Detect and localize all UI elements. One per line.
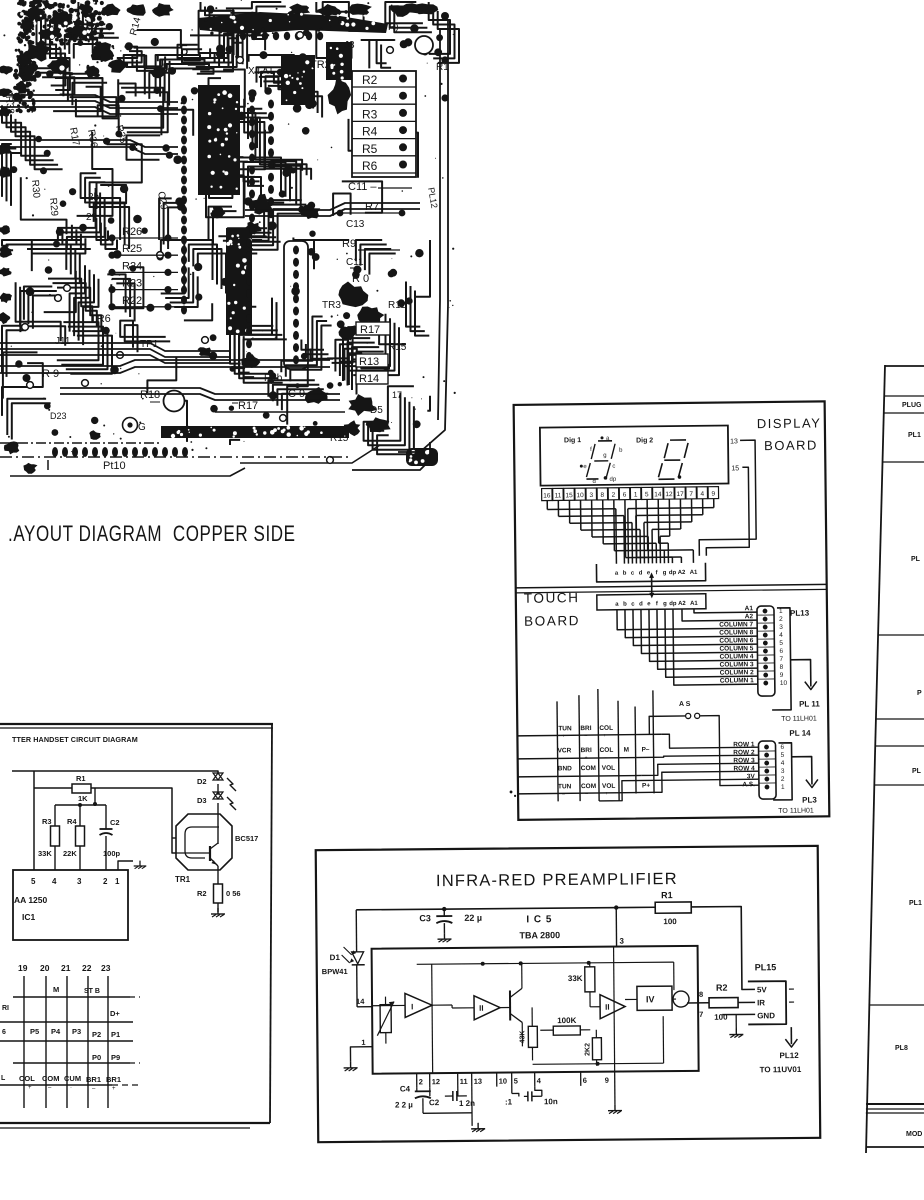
display/touch board outer frame (514, 401, 830, 820)
svg-text:COLUMN 4: COLUMN 4 (720, 653, 754, 660)
board divider line (516, 584, 827, 588)
svg-text:1: 1 (361, 1038, 365, 1047)
svg-text:TO 11UV01: TO 11UV01 (760, 1065, 802, 1074)
svg-text:TR6: TR6 (90, 313, 111, 325)
svg-text:8: 8 (699, 990, 703, 999)
svg-text:D3: D3 (197, 796, 207, 805)
svg-text:22 µ: 22 µ (464, 913, 482, 923)
IC1 box (13, 870, 128, 940)
svg-text:2: 2 (779, 616, 783, 623)
svg-text:3: 3 (77, 877, 82, 886)
capacitor C1 (511, 1087, 513, 1094)
svg-text:COL: COL (599, 725, 613, 732)
svg-text:1: 1 (634, 491, 638, 498)
svg-text:L: L (1, 1075, 6, 1082)
svg-text:R36: R36 (85, 129, 99, 149)
pad row under dark streak (240, 32, 246, 40)
svg-text:C4: C4 (400, 1084, 411, 1093)
svg-text:+: + (603, 733, 606, 739)
pin3/pin9 vertical crossing box (614, 947, 615, 1072)
svg-text:TUN: TUN (558, 783, 572, 790)
svg-text:1: 1 (115, 877, 120, 886)
svg-text:5: 5 (781, 752, 785, 759)
svg-text:d: d (639, 601, 643, 607)
svg-text:I C 5: I C 5 (526, 914, 552, 925)
svg-text:PL1: PL1 (908, 432, 921, 439)
svg-text:+: + (28, 1085, 32, 1091)
svg-text:COM: COM (581, 765, 596, 772)
caption LAYOUT DIAGRAM COPPER SIDE (8, 522, 296, 548)
svg-text:R 0: R 0 (352, 273, 369, 285)
svg-text:R5: R5 (362, 142, 378, 156)
svg-text:COM: COM (581, 783, 596, 790)
mid blobs (D3/C2 area) (251, 194, 273, 215)
PCB copper traces upper-left zone (2, 105, 49, 155)
svg-text:TR1: TR1 (175, 875, 191, 884)
svg-text:ROW 1: ROW 1 (733, 741, 755, 748)
long horizontal trace bundles (lower half) (0, 343, 230, 351)
svg-text:13: 13 (730, 438, 738, 445)
TR1 inner shield loop (185, 827, 219, 858)
scattered via pads (64, 285, 71, 292)
svg-text:P0: P0 (92, 1053, 101, 1062)
svg-text:C3: C3 (419, 913, 431, 923)
svg-text:R24: R24 (122, 260, 142, 272)
svg-text:14: 14 (654, 491, 662, 498)
svg-text:PL12: PL12 (426, 187, 440, 209)
svg-text:22: 22 (82, 963, 92, 973)
svg-text:P–: P– (642, 746, 650, 753)
svg-text:P+: P+ (642, 782, 650, 789)
table row line y=1005 (869, 1004, 924, 1006)
TR1 base wire (172, 837, 176, 839)
svg-text:R29: R29 (47, 197, 60, 217)
resistor R1 (34, 787, 72, 789)
handset box right border (270, 724, 272, 1123)
svg-text:COLUMN 6: COLUMN 6 (719, 637, 753, 644)
white label box R14 (356, 371, 388, 384)
svg-text:IR: IR (757, 998, 765, 1007)
resistor 33K (585, 967, 595, 992)
svg-text:–: – (92, 1086, 96, 1092)
svg-text:dp: dp (669, 601, 677, 607)
PL10 pad row (52, 447, 58, 457)
svg-text:C2: C2 (429, 1098, 440, 1107)
svg-text:4: 4 (700, 491, 704, 498)
dash-dot bottom line (0, 442, 160, 444)
wire D3 to TR1 (217, 803, 219, 844)
resistor R4 22K (79, 805, 81, 826)
amplifier stage II (474, 996, 500, 1020)
top bus for R3 R4 C2 (55, 804, 106, 806)
digit 2 outline figure 8 (670, 439, 686, 441)
svg-text:II: II (479, 1004, 484, 1013)
keypad matrix horizontal wires (517, 734, 661, 736)
svg-text:R22: R22 (122, 295, 142, 307)
svg-text:e: e (647, 601, 651, 607)
dark vertical strip (225,228)-(252,335) (226, 228, 252, 335)
pin 3 wire (615, 908, 617, 947)
svg-text:COLUMN 5: COLUMN 5 (719, 645, 753, 652)
ink blob cluster (20,38)-(70,80) (27, 43, 52, 61)
svg-text:+: + (605, 791, 608, 797)
svg-text:R17: R17 (360, 324, 380, 336)
svg-text:dp: dp (669, 570, 677, 576)
svg-text:C2: C2 (110, 818, 120, 827)
svg-text:VOL: VOL (602, 783, 615, 790)
svg-text:R6: R6 (362, 159, 378, 173)
handset box bottom border (0, 1122, 270, 1124)
svg-text:II: II (605, 1003, 610, 1012)
svg-text:6: 6 (623, 492, 627, 499)
pad column x252 upper (249, 94, 255, 103)
resistor 100K (553, 1026, 580, 1035)
svg-text:ROW 2: ROW 2 (733, 749, 755, 756)
svg-text:e: e (583, 464, 587, 470)
svg-text:R11: R11 (388, 300, 406, 311)
svg-text:5: 5 (645, 491, 649, 498)
ink blob cluster around (100,55) (91, 42, 114, 62)
svg-text:8: 8 (601, 492, 605, 499)
svg-text:COLUMN 1: COLUMN 1 (720, 677, 754, 684)
white label box R17 (356, 322, 390, 335)
svg-text:R4: R4 (67, 817, 77, 826)
svg-text:R2: R2 (362, 73, 378, 87)
svg-text:3: 3 (619, 937, 624, 946)
svg-text:R): R) (388, 22, 399, 33)
svg-text:+: + (562, 733, 565, 739)
pad pair column x445 right edge (441, 12, 449, 20)
svg-text:D1: D1 (330, 953, 341, 962)
svg-text:TTER HANDSET CIRCUIT DIAGRAM: TTER HANDSET CIRCUIT DIAGRAM (12, 735, 138, 744)
svg-text:A1: A1 (745, 605, 754, 612)
svg-text:G: G (138, 422, 146, 433)
PCB right edge double line (438, 28, 440, 420)
svg-text:12: 12 (665, 491, 673, 498)
svg-text:–: – (604, 755, 607, 761)
svg-text:4: 4 (781, 760, 785, 767)
svg-text:TBA 2800: TBA 2800 (519, 930, 560, 940)
svg-text:b: b (619, 448, 623, 454)
svg-text:A S: A S (679, 701, 691, 708)
svg-text:P3: P3 (72, 1027, 81, 1036)
svg-text:8: 8 (780, 664, 784, 671)
svg-text:PL: PL (911, 556, 921, 563)
svg-text:Dig 1: Dig 1 (564, 437, 581, 444)
svg-text:100: 100 (663, 917, 677, 926)
svg-text:C29: C29 (155, 191, 169, 211)
svg-text:d: d (592, 479, 595, 485)
pad column x250 left of connector (246, 239, 252, 248)
hatched dark band (160,425)-(350,440) (161, 426, 349, 438)
bracket and arrow to PL11 (771, 608, 791, 710)
capacitor C2 100p (105, 805, 107, 829)
svg-text:D5: D5 (370, 405, 383, 416)
svg-text:+: + (112, 1086, 116, 1092)
transistor TR1 outline (rounded octagon) (176, 814, 232, 870)
gritty ink mass top-left corner (95, 41, 100, 46)
svg-text:7: 7 (779, 656, 783, 663)
svg-text:A1: A1 (690, 601, 698, 607)
dark patch (280,55)-(315,105) (281, 55, 315, 105)
wires from touch bus to column rows (694, 608, 757, 613)
svg-text:2 2 µ: 2 2 µ (395, 1100, 413, 1109)
svg-text:COL: COL (19, 1074, 35, 1083)
svg-text:10n: 10n (544, 1097, 558, 1106)
svg-text:PL3: PL3 (802, 795, 817, 804)
svg-text:4: 4 (52, 877, 57, 886)
svg-text:R17: R17 (67, 127, 81, 147)
svg-text:g: g (663, 570, 667, 576)
svg-text:BND: BND (558, 765, 572, 772)
svg-text:D+: D+ (110, 1009, 120, 1018)
white label box R2/D4/R3/R4/R5/R6 (352, 71, 416, 177)
svg-text:P5: P5 (30, 1027, 39, 1036)
svg-text:DISPLAY: DISPLAY (757, 415, 822, 431)
svg-text:D4: D4 (362, 90, 378, 104)
open circle pad J? top right (423,45) (415, 36, 433, 54)
svg-text:R38: R38 (3, 95, 16, 115)
DIP outline connector (285,242)-(307,368) (284, 241, 308, 369)
svg-text:D2: D2 (197, 777, 207, 786)
table bottom border (866, 1146, 924, 1148)
table row line y=635 (878, 634, 924, 636)
svg-text:R3: R3 (362, 107, 378, 121)
svg-text:COLUMN 2: COLUMN 2 (720, 669, 754, 676)
PCB copper traces lower-right zone (281, 317, 322, 373)
svg-text:PL12: PL12 (779, 1051, 799, 1060)
svg-text:BC517: BC517 (235, 834, 258, 843)
svg-text:BR1: BR1 (106, 1075, 121, 1084)
svg-text:TO 11LH01: TO 11LH01 (781, 715, 817, 722)
IC bottom pin stubs and numbers (416, 1073, 418, 1087)
svg-text:A.S.: A.S. (742, 781, 755, 788)
svg-text:COM: COM (42, 1074, 60, 1083)
table top border (885, 365, 924, 367)
dark patch lower-right (345,395)-(392,440) (348, 394, 377, 416)
svg-text:A2: A2 (678, 601, 686, 607)
svg-text:5: 5 (514, 1076, 518, 1085)
svg-text:10: 10 (499, 1077, 507, 1086)
svg-text:BPW41: BPW41 (322, 967, 348, 976)
white label box R13 (356, 354, 388, 367)
pin 9 wire down to ground (614, 1072, 616, 1105)
svg-text:g: g (663, 601, 667, 607)
svg-text:17: 17 (676, 491, 684, 498)
svg-text:R1: R1 (661, 890, 673, 900)
large dark rectangle component (198,85)-(240,195) (198, 85, 240, 195)
svg-text::1: :1 (505, 1098, 513, 1107)
svg-text:f: f (590, 447, 592, 453)
output stage IV box (637, 986, 672, 1010)
svg-text:TOUCH: TOUCH (524, 590, 580, 606)
svg-text:COLUMN 7: COLUMN 7 (719, 621, 753, 628)
internal top bus (417, 962, 674, 964)
svg-text:INFRA-RED PREAMPLIFIER: INFRA-RED PREAMPLIFIER (436, 870, 678, 890)
gritty vertical strip left edge (18, 83, 21, 86)
svg-text:R14: R14 (128, 16, 143, 37)
dark diagonal streak along top (200,12)-(385,30) (198, 12, 388, 34)
resistor R2 0.56 (214, 884, 223, 903)
svg-text:a: a (615, 571, 619, 577)
GND row wire and ground (722, 1013, 755, 1015)
svg-text:100p: 100p (103, 849, 121, 858)
svg-text:PL1: PL1 (909, 900, 922, 907)
PCB copper traces mid zone (239, 158, 281, 193)
svg-text:6: 6 (779, 648, 783, 655)
internal bottom bus (533, 1063, 664, 1064)
svg-text:1 2n: 1 2n (459, 1099, 475, 1108)
svg-text:3: 3 (781, 768, 785, 775)
svg-text:2: 2 (419, 1077, 423, 1086)
svg-text:15: 15 (565, 492, 573, 499)
svg-text:TUN: TUN (558, 725, 572, 732)
svg-text:16: 16 (543, 492, 551, 499)
transistor after stage II (509, 991, 511, 1021)
svg-text:33K: 33K (38, 849, 52, 858)
table row line y=462 (883, 461, 924, 463)
seven segment display package (540, 425, 729, 485)
svg-text:3: 3 (589, 492, 593, 499)
svg-text:A2: A2 (745, 613, 754, 620)
svg-text:C11: C11 (346, 257, 364, 268)
svg-text:R17: R17 (238, 400, 258, 412)
connector PL13 (757, 606, 775, 696)
svg-text:dp: dp (609, 477, 616, 483)
svg-text:R1: R1 (436, 62, 449, 73)
svg-text:5V: 5V (757, 985, 768, 994)
svg-text:VOL: VOL (602, 765, 615, 772)
svg-text:a: a (615, 602, 619, 608)
IC internal box (372, 946, 699, 1074)
svg-text:f: f (656, 570, 659, 576)
svg-text:R14: R14 (359, 373, 379, 385)
left edge ink marks (0, 66, 13, 75)
svg-text:PLUG: PLUG (902, 402, 922, 409)
svg-text:7: 7 (689, 491, 693, 498)
capacitor 10n between pins 5/4 (524, 1095, 528, 1097)
variable resistor (380, 1005, 391, 1033)
big via circle near R18 (174,401) (164, 391, 185, 412)
svg-text:PL8: PL8 (895, 1045, 908, 1052)
table row line y=396 (884, 395, 924, 397)
svg-text:20: 20 (40, 963, 50, 973)
svg-text:2b: 2b (88, 192, 100, 203)
svg-text:ST B: ST B (84, 988, 100, 995)
lower-middle extra ink (305, 387, 328, 404)
svg-text:COL: COL (600, 747, 614, 754)
svg-text:J11: J11 (55, 336, 71, 347)
resistor 4.3K vertical (528, 1026, 537, 1047)
PCB bottom-right corner traces (352, 442, 430, 470)
fan wires from display pins to bus (546, 501, 548, 510)
svg-text:R15: R15 (330, 433, 349, 444)
svg-text:PL15: PL15 (755, 962, 777, 972)
svg-text:R9: R9 (342, 238, 356, 250)
svg-text:7: 7 (699, 1010, 703, 1019)
touch-side bus rectangle (597, 594, 706, 610)
svg-text:R25: R25 (122, 243, 142, 255)
svg-text:11: 11 (555, 492, 562, 499)
svg-text:R30: R30 (29, 179, 42, 199)
svg-text:CUM: CUM (64, 1074, 81, 1083)
svg-text:1: 1 (779, 608, 783, 615)
top band extra blobs (102, 4, 121, 17)
svg-text:4: 4 (537, 1076, 542, 1085)
pin 12 vertical through box (431, 964, 434, 1073)
bus link double arrow (651, 574, 653, 596)
svg-text:33K: 33K (568, 974, 583, 983)
PCB copper traces right zone (353, 97, 370, 152)
svg-text:·: · (70, 1085, 72, 1091)
svg-text:11: 11 (460, 1077, 468, 1086)
svg-text:43K: 43K (519, 1031, 526, 1044)
arrow to PL12 (790, 1027, 792, 1044)
svg-text:TR2: TR2 (310, 59, 331, 71)
svg-text:R 9: R 9 (42, 368, 59, 380)
svg-text:2: 2 (781, 776, 785, 783)
PCB copper traces top band (65, 35, 93, 53)
long horizontal trace bundles (upper half) (0, 95, 178, 102)
svg-text:TR3: TR3 (322, 300, 341, 311)
svg-text:2?: 2? (86, 212, 98, 223)
svg-text:PL: PL (912, 768, 922, 775)
svg-text:R13: R13 (359, 356, 379, 368)
svg-text:IC1: IC1 (22, 912, 36, 922)
svg-text:2K2: 2K2 (584, 1043, 591, 1056)
amplifier stage I (405, 993, 432, 1017)
preamplifier outer frame (316, 846, 821, 1142)
svg-text:3V: 3V (747, 773, 756, 780)
svg-text:21: 21 (61, 963, 71, 973)
svg-text:COLUMN 3: COLUMN 3 (720, 661, 754, 668)
horizontal line R18 leader (150, 401, 160, 403)
svg-text:A1: A1 (690, 570, 698, 576)
svg-text:b: b (623, 571, 627, 577)
display bus bracket (596, 563, 705, 582)
svg-text:1K: 1K (78, 794, 88, 803)
scan speckle noise (290, 11, 291, 12)
svg-text:9: 9 (712, 491, 716, 498)
svg-text:6: 6 (2, 1029, 6, 1036)
svg-text:BRI: BRI (580, 725, 591, 732)
svg-text:C11 –: C11 – (348, 181, 377, 193)
svg-text:COLUMN 8: COLUMN 8 (719, 629, 753, 636)
dark patch near TR3/R11 (335,280)-(382,345) (338, 282, 368, 308)
resistor R2 100 (709, 998, 738, 1008)
svg-text:R3: R3 (42, 817, 52, 826)
TR1 transistor symbol (209, 846, 211, 861)
rail to right and down to 5V (691, 906, 755, 990)
svg-text:PL 14: PL 14 (789, 729, 811, 738)
bracket arrow to PL3 (772, 743, 792, 800)
table left border (skewed) (875, 365, 885, 755)
bottom trace under PL10 (47, 460, 49, 470)
capacitor 1.2n between pins 11/13 (457, 1087, 459, 1096)
svg-text:14: 14 (356, 997, 365, 1006)
svg-text:P4: P4 (51, 1027, 61, 1036)
junction to R3/R4/C2 bus (94, 788, 96, 805)
capacitor C4 2.2u (416, 1087, 418, 1091)
board divider second line (516, 589, 827, 593)
DIP pad column at x185 (181, 96, 187, 105)
table row line y=413 (884, 412, 924, 414)
pin number boxes under display (542, 488, 553, 500)
svg-text:4: 4 (779, 632, 783, 639)
svg-text:BOARD: BOARD (524, 613, 580, 629)
svg-text:C13: C13 (346, 219, 365, 230)
matrix vertical wires (23, 976, 25, 1108)
